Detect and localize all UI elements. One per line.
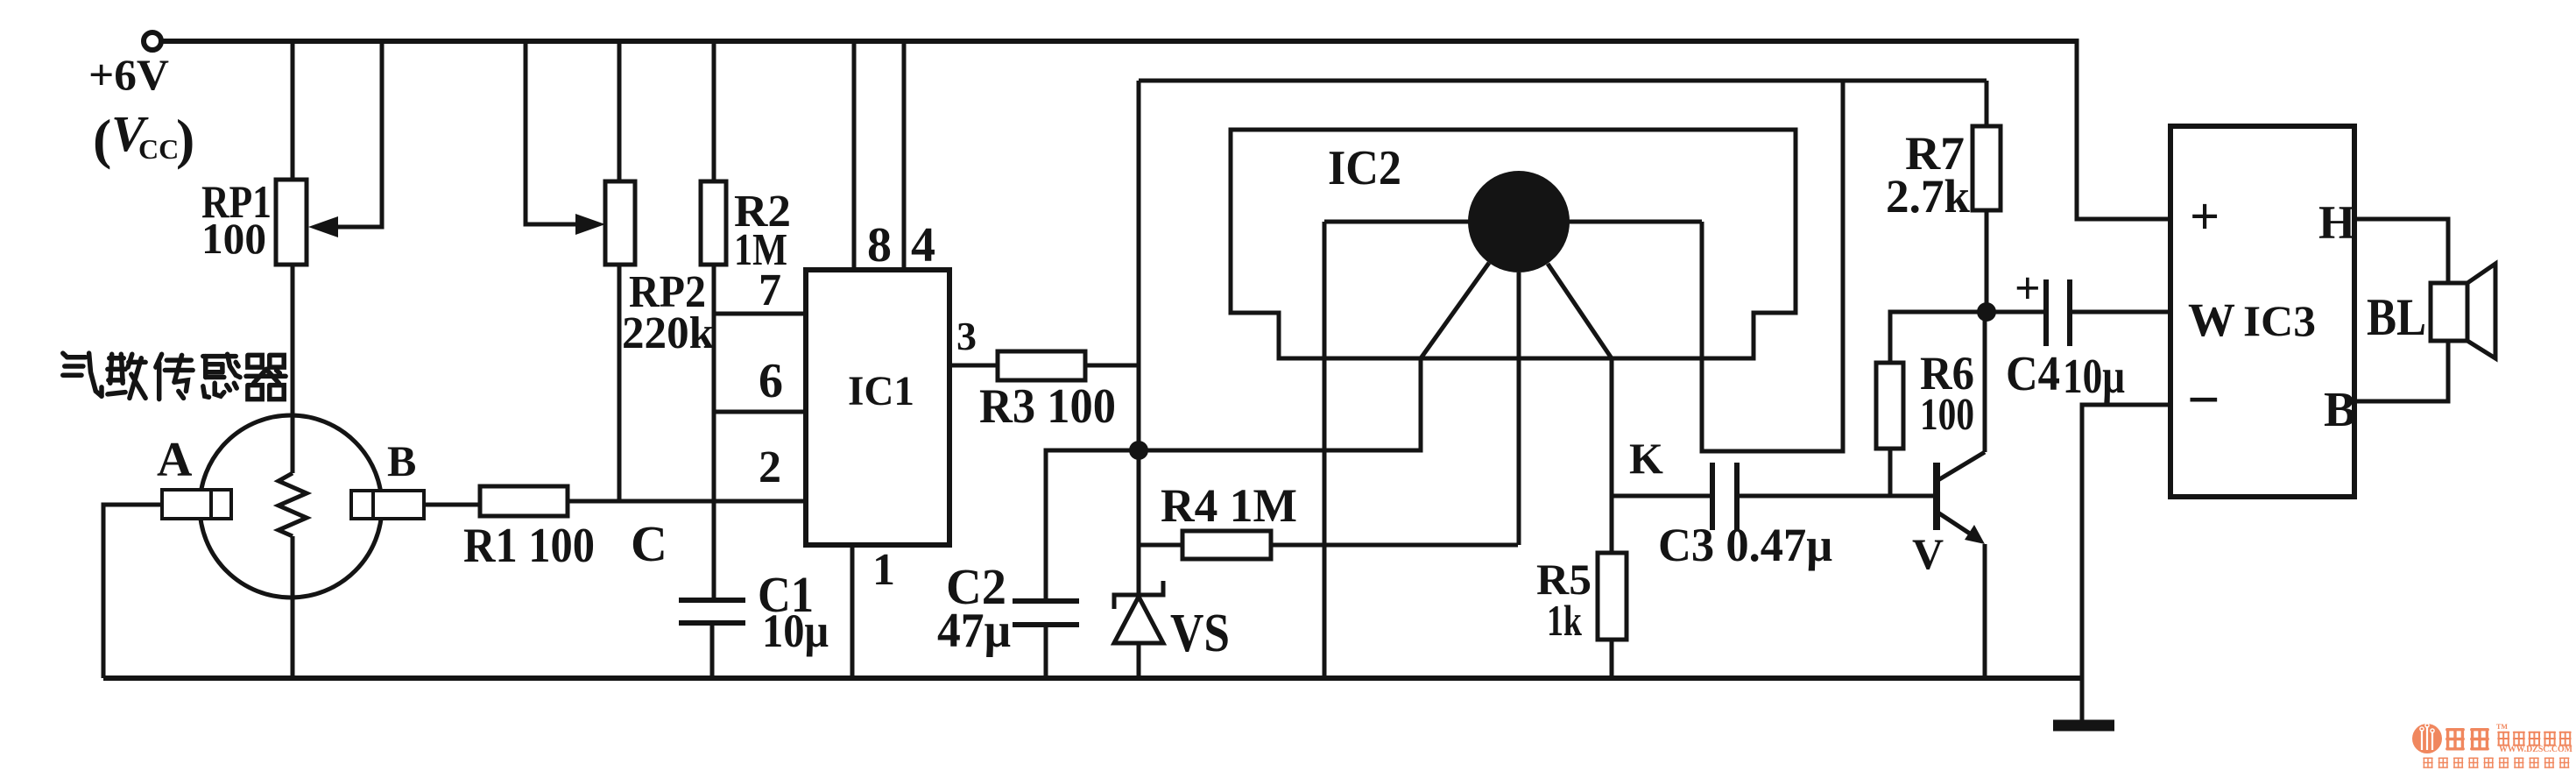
wire: VS anode to ground rail — [1137, 643, 1141, 678]
wire: IC3 H pin to speaker — [2354, 219, 2448, 283]
collector node dot — [1977, 302, 1996, 322]
svg-text:K: K — [1629, 434, 1663, 483]
wire: C3 to transistor base — [1737, 494, 1934, 499]
svg-text:220k: 220k — [622, 308, 714, 358]
svg-text:R1 100: R1 100 — [463, 519, 595, 573]
music chip IC2 module outline — [1231, 130, 1796, 358]
sensor terminal B — [351, 491, 424, 519]
R7 label — [1886, 127, 1970, 223]
svg-text:WWW.DZSC.COM: WWW.DZSC.COM — [2499, 745, 2572, 754]
V label — [1912, 529, 1944, 578]
capacitor C4 polarity plus — [2015, 264, 2041, 314]
resistor R7 — [1973, 126, 2001, 210]
wire: IC1 pin 6 — [714, 410, 806, 414]
wire: rail drop to IC3 plus pin — [2077, 39, 2170, 219]
RP2 label — [622, 267, 714, 358]
pin number 3 — [956, 314, 977, 358]
capacitor C1 — [679, 600, 745, 623]
wire: node column (feedback) — [1137, 81, 1141, 595]
gas sensor label (Chinese) — [63, 353, 286, 400]
svg-text:4: 4 — [911, 218, 935, 272]
C2 label — [937, 558, 1011, 658]
transistor V — [1937, 452, 1985, 544]
svg-text:W: W — [2188, 294, 2235, 346]
svg-text:IC1: IC1 — [848, 368, 914, 414]
svg-text:47μ: 47μ — [937, 604, 1011, 658]
wire: R5 bottom lead — [1610, 640, 1614, 678]
bond wire 2 (to R4) — [1517, 272, 1521, 545]
wire: IC2 inner-right lead to top link — [1702, 81, 1843, 451]
potentiometer RP2 — [605, 181, 635, 265]
capacitor C3 — [1712, 463, 1737, 530]
sensor terminal A — [162, 490, 231, 519]
wire: node to C2 — [1046, 450, 1139, 601]
VS label — [1170, 604, 1230, 663]
+6V supply terminal — [144, 32, 161, 50]
wire: C2 bottom lead — [1044, 625, 1048, 678]
wire: R2 top lead — [712, 41, 716, 181]
resistor R2 — [701, 181, 726, 265]
wire: K node to C3 — [1612, 494, 1712, 499]
resistor R3 — [998, 351, 1085, 380]
wire: C1 bottom lead — [710, 623, 715, 678]
svg-text:A: A — [157, 433, 193, 487]
wire: R6 top lead to node — [1890, 312, 1981, 363]
R6 label — [1920, 347, 1974, 440]
svg-text:BL: BL — [2367, 288, 2426, 346]
op-amp IC1 — [806, 270, 949, 545]
wire: C4 to IC3 W pin — [2070, 310, 2170, 315]
svg-text:6: 6 — [759, 354, 783, 408]
svg-text:−: − — [2187, 368, 2220, 432]
svg-text:V: V — [1912, 529, 1944, 578]
wire: terminal A down to ground rail — [103, 505, 162, 678]
audio amp IC3 — [2170, 126, 2354, 497]
resistor R5 — [1598, 553, 1627, 640]
R4 label — [1161, 479, 1297, 532]
wire: top +6V rail — [161, 39, 2077, 44]
wire: R4 to IC2 bond pad — [1271, 543, 1518, 548]
svg-text:): ) — [176, 108, 194, 170]
wire: R6 bottom lead to base wire — [1888, 449, 1893, 496]
RP1 label — [201, 177, 272, 263]
C4 label — [2006, 347, 2125, 404]
svg-text:C3 0.47μ: C3 0.47μ — [1658, 519, 1832, 571]
svg-text:2: 2 — [759, 442, 781, 492]
wire: RP1 top lead — [291, 41, 295, 180]
svg-text:R4 1M: R4 1M — [1161, 479, 1297, 532]
svg-text:1k: 1k — [1547, 596, 1582, 645]
node junction dot — [1129, 441, 1148, 460]
gas sensor envelope — [200, 415, 382, 598]
wire: top link to R7 — [1139, 79, 1987, 83]
node label C — [631, 515, 667, 572]
wire: R3 to node column — [1085, 364, 1139, 368]
svg-text:10μ: 10μ — [762, 605, 829, 657]
IC2 label — [1328, 141, 1401, 195]
svg-text:CC: CC — [138, 133, 179, 165]
pin number 1 — [872, 545, 895, 595]
potentiometer RP1 — [276, 180, 307, 265]
speaker BL — [2431, 264, 2495, 358]
ground — [2053, 720, 2114, 732]
pin number 6 — [759, 354, 783, 408]
wire: IC3 B pin to speaker — [2354, 341, 2448, 401]
capacitor C2 — [1013, 601, 1079, 625]
capacitor C4 — [2046, 279, 2070, 346]
wire: RP2 top lead — [618, 41, 622, 181]
pin number 7 — [759, 265, 781, 315]
svg-text:+: + — [2015, 264, 2041, 314]
svg-text:10μ: 10μ — [2063, 350, 2125, 404]
svg-text:TM: TM — [2496, 723, 2508, 731]
resistor R6 — [1876, 363, 1903, 449]
watermark logo — [2412, 723, 2572, 767]
svg-text:IC3: IC3 — [2243, 296, 2316, 345]
C1 label — [758, 566, 829, 657]
wire: R2 bottom column to C1 — [712, 265, 716, 600]
wire: R7 top lead — [1985, 81, 1989, 126]
wire: RP1 wiper arm — [308, 41, 382, 237]
wire: IC1 pin 1 to ground rail — [850, 545, 855, 678]
svg-text:100: 100 — [201, 214, 266, 263]
svg-text:C4: C4 — [2006, 347, 2060, 401]
IC3 pin labels — [2187, 187, 2356, 437]
C3 label — [1658, 519, 1832, 571]
svg-text:B: B — [2324, 383, 2356, 437]
bond wire 1 (to node) — [1421, 263, 1489, 358]
svg-text:7: 7 — [759, 265, 781, 315]
wire: node to IC2 bond wire 1 — [1147, 358, 1421, 450]
wire: IC3 minus pin to ground — [2082, 405, 2170, 725]
svg-text:(: ( — [93, 108, 111, 170]
node label B — [387, 436, 416, 485]
wire: node to R4 — [1139, 543, 1182, 548]
wire: sensor bottom lead to ground rail — [291, 536, 295, 678]
IC1 label — [848, 368, 914, 414]
BL label — [2367, 288, 2426, 346]
wire: node to C4 — [1987, 310, 2046, 315]
resistor R1 — [480, 486, 568, 516]
svg-text:100: 100 — [1920, 390, 1974, 440]
svg-text:1: 1 — [872, 545, 895, 595]
wire: bottom ground rail — [103, 676, 2082, 681]
svg-text:IC2: IC2 — [1328, 141, 1401, 195]
pin number 8 — [867, 218, 892, 272]
pin number 2 — [759, 442, 781, 492]
svg-text:+6V: +6V — [88, 50, 169, 99]
R2 label — [734, 187, 791, 275]
svg-text:H: H — [2318, 196, 2355, 249]
wire: emitter to ground rail — [1983, 544, 1987, 678]
wire: R1 to IC1 pin 2 — [568, 499, 806, 504]
wire: IC1 pin 8 to rail — [852, 41, 857, 270]
svg-text:C: C — [631, 515, 667, 572]
wire: RP2 bottom lead to node C — [618, 265, 622, 501]
wire: IC2 inner-left lead to ground rail — [1323, 222, 1327, 678]
svg-text:VS: VS — [1170, 604, 1230, 663]
wire: RP1 bottom lead into sensor — [291, 265, 295, 473]
pin number 4 — [911, 218, 935, 272]
svg-text:2.7k: 2.7k — [1886, 170, 1970, 223]
wire: IC1 pin 3 to R3 — [949, 364, 998, 368]
wire: IC1 pin 7 — [714, 312, 806, 316]
svg-text:+: + — [2190, 187, 2220, 245]
+6V (Vcc) label — [88, 50, 194, 170]
wire: R7 bottom lead to node — [1985, 210, 1989, 312]
R1 label — [463, 519, 595, 573]
svg-text:8: 8 — [867, 218, 892, 272]
R5 label — [1536, 555, 1591, 645]
R3 label — [979, 379, 1116, 434]
sensor heater element — [279, 473, 307, 536]
wire: IC1 pin 4 to rail — [902, 41, 907, 270]
zener diode VS — [1114, 581, 1163, 643]
svg-text:R3 100: R3 100 — [979, 379, 1116, 434]
node label A — [157, 433, 193, 487]
wire: terminal B to R1 — [424, 503, 480, 507]
node label K — [1629, 434, 1663, 483]
wire: RP2 wiper arm — [526, 41, 605, 235]
svg-text:3: 3 — [956, 314, 977, 358]
svg-text:B: B — [387, 436, 416, 485]
IC2 chip blob — [1468, 171, 1570, 272]
wire: collector to node — [1983, 312, 1987, 452]
resistor R4 — [1182, 531, 1271, 559]
bond wire 3 (to K) — [1548, 264, 1612, 553]
